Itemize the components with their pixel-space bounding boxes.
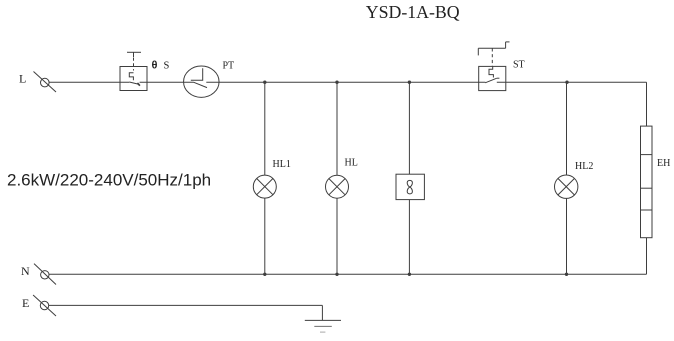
node N fan xyxy=(408,273,411,276)
node N HL2 xyxy=(565,273,568,276)
terminal E xyxy=(22,295,56,316)
wire down to fan xyxy=(408,82,410,174)
wire down to HL xyxy=(336,82,338,175)
fan blade symbol xyxy=(407,180,412,194)
thermostat ST contact blade xyxy=(485,78,499,83)
node N HL1 xyxy=(263,273,266,276)
svg-text:N: N xyxy=(21,264,30,278)
svg-text:L: L xyxy=(19,72,26,86)
svg-text:PT: PT xyxy=(223,61,235,72)
earth wire drop xyxy=(321,305,323,320)
node top HL1 xyxy=(263,81,266,84)
heater EH xyxy=(641,126,653,238)
wire HL1 to N xyxy=(264,198,266,274)
thermostat S actuator T-bar xyxy=(127,52,141,57)
svg-text:2.6kW/220-240V/50Hz/1ph: 2.6kW/220-240V/50Hz/1ph xyxy=(7,171,211,190)
wire down to EH xyxy=(646,82,648,126)
svg-text:HL2: HL2 xyxy=(575,161,593,172)
wire HL to N xyxy=(336,198,338,274)
ground symbol xyxy=(305,320,341,332)
svg-text:YSD-1A-BQ: YSD-1A-BQ xyxy=(366,2,460,22)
svg-text:HL1: HL1 xyxy=(273,159,291,170)
wire L to thermostat S xyxy=(49,81,129,83)
wire PT to ST xyxy=(206,81,485,83)
wire ST right segment xyxy=(497,81,647,83)
wire EH to N xyxy=(646,238,648,275)
svg-text:θ: θ xyxy=(152,60,158,72)
thermostat S contact hook xyxy=(129,73,133,81)
neutral wire N xyxy=(49,273,646,275)
svg-text:E: E xyxy=(22,296,29,310)
fan motor box xyxy=(396,174,424,199)
timer PT contact blade xyxy=(194,82,208,87)
svg-text:HL: HL xyxy=(345,158,358,169)
svg-text:S: S xyxy=(164,61,170,72)
thermostat S box xyxy=(120,67,147,91)
timer PT clock hands xyxy=(191,68,203,80)
wire HL2 to N xyxy=(566,198,568,274)
lamp HL1 xyxy=(253,175,276,198)
terminal L xyxy=(19,72,56,93)
svg-text:ST: ST xyxy=(513,60,525,71)
node top fan xyxy=(408,81,411,84)
lamp HL xyxy=(326,175,349,198)
thermostat S dashed actuator link xyxy=(133,58,135,71)
thermostat ST actuator bar xyxy=(478,42,509,56)
svg-text:EH: EH xyxy=(657,158,670,169)
thermostat ST contact hook xyxy=(489,66,493,77)
lamp HL2 xyxy=(555,175,578,198)
thermostat S contact blade xyxy=(129,82,140,86)
node N HL xyxy=(335,273,338,276)
earth wire E xyxy=(49,304,323,306)
timer PT circle xyxy=(184,66,220,97)
thermostat ST box xyxy=(479,66,506,90)
node top HL2 xyxy=(565,81,568,84)
wire down to HL1 xyxy=(264,82,266,175)
terminal N xyxy=(21,264,56,285)
wire fan to N xyxy=(408,200,410,275)
wire S to PT xyxy=(140,81,194,83)
thermostat ST dashed actuator link xyxy=(491,48,493,66)
wire down to HL2 xyxy=(566,82,568,175)
node top HL xyxy=(335,81,338,84)
